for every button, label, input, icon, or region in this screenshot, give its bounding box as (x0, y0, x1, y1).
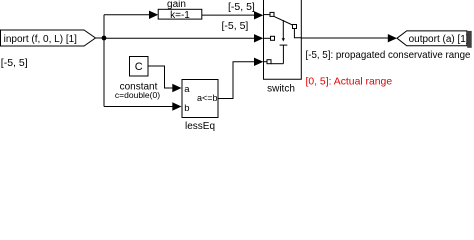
port3 tick and square (264, 61, 268, 63)
lever diagonal (274, 16, 293, 25)
svg-text:[-5, 5]: propagated conservat: [-5, 5]: propagated conservative range (306, 50, 471, 61)
svg-text:k=-1: k=-1 (170, 10, 190, 21)
wire constant to lessEq a (148, 66, 173, 88)
gain G1 k=-1 (158, 0, 202, 21)
wire lessEq to switch port3 (218, 62, 255, 99)
svg-text:[0, 5]: Actual range: [0, 5]: Actual range (306, 77, 393, 88)
wire inport to junction (96, 37, 105, 39)
node junction (102, 36, 107, 41)
control arrow (282, 20, 284, 39)
wire junction to gain (104, 14, 150, 16)
svg-text:C: C (135, 61, 143, 73)
wire junction to switch port2 (104, 37, 255, 39)
svg-text:a<=b: a<=b (197, 93, 218, 103)
wire trunk to lessEq b (104, 106, 173, 108)
inport block (f, 0, L) [1] (1, 30, 96, 46)
output path to right edge (294, 29, 301, 38)
outport block (a) [1] (397, 31, 472, 48)
output square (293, 25, 297, 29)
wire gain to switch port1 (202, 14, 255, 16)
svg-text:c=double(0): c=double(0) (115, 90, 160, 100)
svg-text:[-5, 5]: [-5, 5] (1, 57, 28, 69)
svg-text:gain: gain (167, 0, 186, 10)
constant C block (115, 57, 160, 101)
port2 tick and square (264, 37, 271, 39)
svg-text:inport (f, 0, L) [1]: inport (f, 0, L) [1] (4, 34, 78, 45)
switch block (264, 0, 302, 94)
lessEq block (182, 80, 218, 132)
wire vertical trunk (103, 15, 105, 107)
port1 tick and square (264, 14, 271, 16)
svg-text:outport (a) [1]: outport (a) [1] (409, 34, 469, 45)
svg-text:[-5, 5]: [-5, 5] (222, 20, 249, 32)
svg-text:b: b (184, 103, 189, 114)
svg-text:a: a (184, 84, 190, 95)
svg-text:[-5, 5]: [-5, 5] (228, 1, 255, 13)
svg-text:lessEq: lessEq (185, 121, 215, 132)
wire switch to outport (301, 37, 389, 39)
svg-text:switch: switch (267, 83, 295, 94)
T bar contact (280, 44, 288, 46)
